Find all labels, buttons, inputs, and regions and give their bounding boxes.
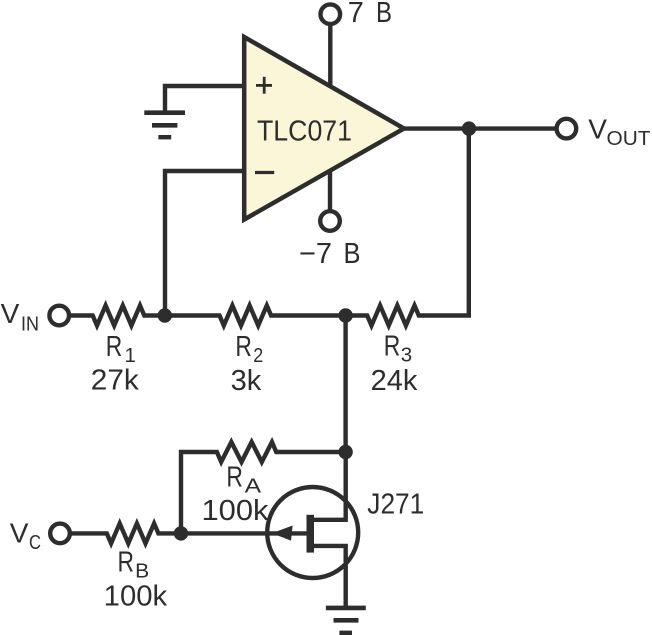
svg-text:3: 3 — [401, 344, 412, 367]
svg-text:V: V — [588, 114, 607, 145]
svg-text:R: R — [384, 331, 401, 363]
svg-text:J271: J271 — [367, 488, 424, 520]
svg-text:100k: 100k — [202, 495, 270, 527]
svg-text:R: R — [235, 331, 252, 363]
svg-text:OUT: OUT — [607, 127, 651, 150]
svg-text:27k: 27k — [91, 365, 140, 397]
svg-text:R: R — [106, 331, 123, 363]
svg-text:3k: 3k — [231, 365, 262, 397]
svg-text:R: R — [118, 546, 135, 578]
svg-text:B: B — [135, 560, 149, 583]
svg-text:V: V — [10, 518, 29, 549]
svg-text:2: 2 — [253, 344, 263, 367]
svg-text:24k: 24k — [371, 365, 418, 397]
svg-text:7: 7 — [348, 0, 364, 29]
svg-text:В: В — [344, 238, 361, 270]
svg-text:V: V — [1, 298, 20, 329]
svg-text:IN: IN — [21, 313, 39, 336]
svg-text:−7: −7 — [299, 238, 332, 270]
svg-text:В: В — [376, 0, 392, 29]
svg-text:R: R — [226, 462, 243, 494]
svg-text:C: C — [29, 531, 41, 554]
svg-text:TLC071: TLC071 — [257, 116, 352, 148]
svg-text:100k: 100k — [104, 581, 168, 613]
